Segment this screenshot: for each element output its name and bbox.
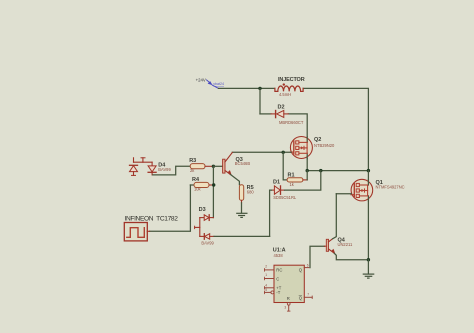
node [306, 169, 309, 172]
svg-text:680: 680 [247, 189, 255, 194]
pulse source INFINEON TC1782 [124, 215, 178, 241]
ground R5 [237, 213, 247, 217]
IC U1:A 4538 [265, 248, 313, 312]
mosfet Q1 [351, 179, 405, 201]
svg-text:NTMFS4927NC: NTMFS4927NC [376, 185, 405, 190]
resistor R1 [287, 173, 307, 188]
svg-text:4538: 4538 [274, 253, 284, 258]
svg-text:UN2211: UN2211 [338, 242, 353, 247]
svg-text:BAV99: BAV99 [201, 240, 214, 245]
svg-text:SD05C51RL: SD05C51RL [273, 195, 297, 200]
wire riser R3-R4-D3 [212, 166, 214, 217]
pin 5 -T with bubble [265, 291, 271, 293]
svg-text:MBRD660CT: MBRD660CT [279, 120, 304, 125]
pin 2 RC [265, 269, 275, 271]
pin 6 Q [304, 267, 309, 269]
svg-text:4: 4 [265, 284, 267, 288]
wire mid rail y170 [307, 170, 368, 172]
wire Q3 emitter to R5 [231, 175, 240, 185]
wire D1 right riser [285, 171, 321, 191]
node R4 junction [212, 183, 215, 186]
dual diode D4 [130, 158, 172, 176]
node [367, 169, 370, 172]
ground right [363, 274, 373, 278]
wire Q4 base [310, 246, 324, 267]
wire R1 right riser [306, 171, 308, 180]
diode D2 [271, 105, 304, 126]
node [319, 169, 322, 172]
svg-text:R: R [287, 296, 290, 301]
svg-text:BAV99: BAV99 [158, 167, 171, 172]
mosfet Q2 [290, 137, 335, 159]
wire D1 left riser [270, 190, 272, 236]
wire Q2 source [306, 159, 308, 171]
wire R5 to ground [241, 203, 243, 213]
power terminal +24V [196, 77, 224, 88]
svg-text:INJECTOR: INJECTOR [278, 77, 305, 83]
pin 7 Qbar [304, 296, 312, 298]
svg-text:7: 7 [307, 293, 309, 297]
pin 1 C [265, 278, 275, 280]
svg-text:D1: D1 [273, 179, 280, 185]
wire Q4 emitter rail [334, 253, 368, 260]
svg-text:3: 3 [284, 306, 286, 310]
resistor R4 [190, 177, 213, 191]
resistor R5 [239, 185, 254, 203]
svg-text:6: 6 [307, 263, 309, 267]
transistor Q3 [223, 153, 251, 176]
svg-text:NTB29N20: NTB29N20 [314, 143, 335, 148]
svg-text:D2: D2 [278, 105, 285, 111]
svg-text:BC546B: BC546B [235, 161, 251, 166]
node top junction [258, 87, 261, 90]
wire D2 right to Q2 drain [288, 114, 307, 137]
svg-text:2: 2 [265, 265, 267, 269]
inductor INJECTOR [275, 77, 305, 97]
svg-text:1: 1 [265, 273, 267, 277]
wire Q4 collector riser [333, 194, 337, 239]
wire D4 to R3 [153, 166, 190, 175]
svg-text:RC: RC [276, 268, 282, 273]
node [282, 151, 285, 154]
svg-text:D3: D3 [199, 207, 206, 213]
wire top rail right to right vertical [303, 88, 368, 170]
wire Q3 collector rail / Q2 gate [232, 151, 291, 153]
svg-text:C: C [276, 276, 279, 281]
wire Q1 drain [367, 171, 369, 180]
node R3 junction [212, 165, 215, 168]
wire R1 left riser [283, 152, 287, 180]
svg-text:vbat24: vbat24 [213, 82, 224, 86]
svg-text:4.5mH: 4.5mH [279, 92, 291, 97]
wire Q1 gate [336, 193, 351, 195]
svg-text:-T: -T [276, 290, 280, 295]
wire drop to D2 [259, 88, 261, 114]
wire D2 left lead [260, 113, 271, 115]
wire D3 bottom to D1 riser [214, 235, 270, 237]
node emitter-source junction [367, 258, 370, 261]
wire R4 left riser [150, 185, 191, 231]
wire ground drop right [367, 260, 369, 274]
transistor Q4 [326, 237, 353, 254]
diode D1 [272, 179, 297, 200]
svg-text:5: 5 [265, 288, 267, 292]
dual diode D3 [195, 207, 215, 246]
svg-text:INFINEON TC1782: INFINEON TC1782 [125, 215, 179, 222]
wire Q1 source down [367, 201, 369, 260]
svg-text:+24V: +24V [196, 77, 206, 82]
wire top rail left [219, 87, 275, 89]
pin 4 +T [265, 287, 275, 289]
resistor R3 [189, 158, 213, 173]
wire R3 to Q3 base [213, 165, 222, 167]
